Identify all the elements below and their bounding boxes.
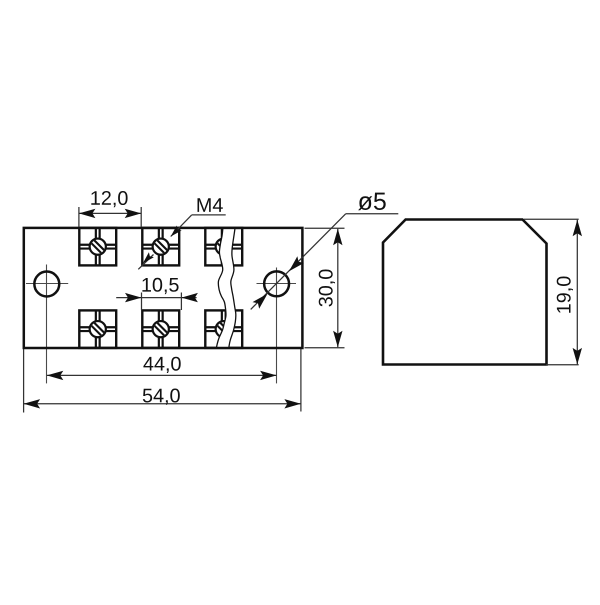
dimension 12,0	[79, 191, 141, 227]
break band fill	[217, 229, 236, 348]
side view outline	[383, 220, 547, 365]
dimension 19,0	[524, 219, 582, 364]
terminal T3	[205, 228, 242, 266]
centerline right hole	[257, 268, 297, 384]
dimension 44,0	[47, 357, 277, 380]
terminal T5	[142, 310, 179, 348]
dimension 10,5	[116, 278, 198, 310]
centerline left hole	[26, 265, 68, 384]
terminal T6	[205, 310, 242, 348]
terminal T4	[79, 310, 116, 348]
dimension 30,0	[305, 228, 345, 347]
terminal T1	[79, 228, 116, 266]
mounting hole left	[34, 272, 59, 297]
terminal T2	[142, 228, 179, 266]
leader M4	[138, 198, 225, 269]
break line left	[217, 229, 226, 348]
dimension 54,0	[24, 349, 301, 413]
part outline top view	[24, 228, 303, 348]
mounting hole right	[264, 271, 289, 296]
leader diameter 5	[251, 193, 399, 310]
break line right	[229, 229, 236, 347]
